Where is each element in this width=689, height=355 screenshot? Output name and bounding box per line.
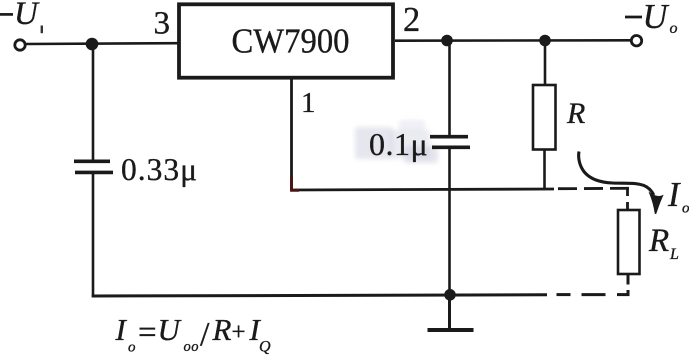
svg-text:0.33μ: 0.33μ [121, 152, 198, 187]
svg-text:U: U [643, 0, 670, 36]
svg-text:2: 2 [403, 1, 420, 39]
svg-text:o: o [128, 340, 136, 355]
svg-text:+: + [232, 319, 246, 346]
svg-text:0.1μ: 0.1μ [369, 126, 428, 162]
svg-text:R: R [566, 97, 585, 130]
svg-text:Q: Q [259, 339, 271, 355]
svg-text:I: I [667, 176, 681, 214]
svg-text:I: I [115, 312, 128, 347]
svg-text:U: U [158, 312, 183, 347]
svg-text:3: 3 [154, 6, 171, 42]
svg-text:U: U [14, 0, 40, 32]
svg-text:/: / [200, 316, 210, 353]
svg-text:o: o [670, 20, 678, 37]
svg-text:o: o [682, 201, 689, 217]
svg-text:oo: oo [184, 339, 200, 355]
svg-text:CW7900: CW7900 [232, 22, 350, 61]
svg-text:R: R [648, 223, 669, 259]
svg-text:1: 1 [301, 87, 316, 119]
svg-text:L: L [669, 246, 679, 263]
svg-text:R: R [212, 312, 232, 347]
svg-text:=: = [138, 315, 157, 351]
